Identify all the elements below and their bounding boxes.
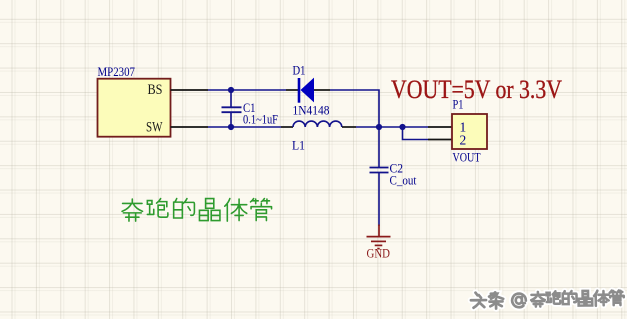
inductor L1 <box>293 121 342 127</box>
svg-text:D1: D1 <box>293 63 306 78</box>
node junction C1 bottom <box>228 124 234 130</box>
pin 1 of P1 <box>428 126 452 128</box>
diode D1 triangle <box>301 78 315 103</box>
wire to P1 pin 1 <box>403 126 429 128</box>
wire SW to C1 bottom junction and L1 <box>208 126 281 128</box>
ground symbol GND <box>367 225 391 249</box>
svg-text:L1: L1 <box>292 138 305 153</box>
pin L1 right <box>342 126 356 128</box>
wire BS to C1 top junction <box>208 89 286 91</box>
capacitor C1 <box>222 90 242 127</box>
wire branch down to pin 2 <box>403 127 429 140</box>
svg-text:VOUT: VOUT <box>453 151 481 165</box>
node junction C1 top <box>228 87 234 93</box>
node output junction <box>376 124 382 130</box>
watermark 头条 @奔跑的晶体管 <box>471 290 624 309</box>
wire D1 to corner <box>330 90 379 127</box>
svg-text:SW: SW <box>146 120 163 136</box>
connector P1 body <box>452 114 487 149</box>
svg-text:BS: BS <box>148 82 163 98</box>
wire output junction down to C2 <box>378 127 380 168</box>
svg-text:C_out: C_out <box>390 173 417 187</box>
wire L1 to output junction <box>356 126 379 128</box>
pin D1 anode left <box>286 89 298 91</box>
annotation green watermark text 奔跑的晶体管 <box>122 199 271 222</box>
pin BS of U1 <box>171 89 209 91</box>
svg-text:0.1~1uF: 0.1~1uF <box>243 113 278 127</box>
capacitor C2 <box>370 168 389 173</box>
svg-text:VOUT=5V or 3.3V: VOUT=5V or 3.3V <box>391 75 562 104</box>
svg-text:MP2307: MP2307 <box>98 64 136 79</box>
svg-text:GND: GND <box>367 247 391 261</box>
pin L1 left <box>281 126 293 128</box>
wire C2 to ground <box>378 173 380 227</box>
component U1 MP2307 body <box>98 79 171 137</box>
pin 2 of P1 <box>428 139 452 141</box>
diode D1 cathode bar <box>298 78 301 103</box>
node P1 branch junction <box>399 124 405 130</box>
svg-text:1N4148: 1N4148 <box>293 104 330 118</box>
pin SW of U1 <box>171 126 209 128</box>
wire output junction to P1 branch junction <box>379 126 403 128</box>
svg-text:2: 2 <box>460 133 467 148</box>
pin D1 right <box>314 89 330 91</box>
